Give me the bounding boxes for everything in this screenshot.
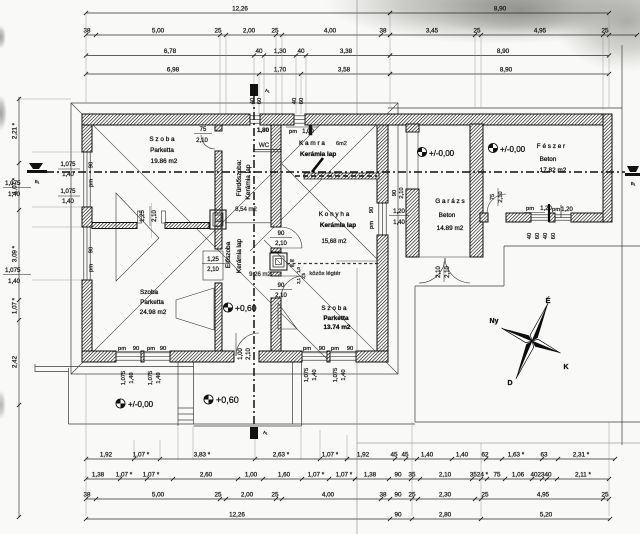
roof hip line 3 — [250, 103, 398, 251]
svg-text:1,07 *: 1,07 * — [12, 297, 19, 314]
wall stub WC — [253, 149, 281, 151]
svg-text:1,80: 1,80 — [257, 127, 270, 134]
section line A-A vertical — [253, 96, 255, 433]
roof hip line 4 — [264, 240, 398, 374]
svg-text:4,00: 4,00 — [324, 28, 337, 35]
svg-text:1,38: 1,38 — [364, 472, 377, 479]
svg-text:1,20: 1,20 — [540, 206, 552, 212]
svg-text:1,0: 1,0 — [296, 266, 301, 272]
svg-text:+0,60: +0,60 — [235, 303, 257, 313]
svg-text:WC: WC — [259, 142, 270, 149]
svg-text:90: 90 — [319, 346, 325, 352]
svg-text:15,68 m2: 15,68 m2 — [321, 239, 347, 245]
svg-text:60: 60 — [551, 233, 557, 239]
beam line chimney to W3 — [225, 222, 271, 224]
svg-text:14.89 m2: 14.89 m2 — [437, 225, 464, 232]
svg-text:2,00: 2,00 — [243, 28, 256, 35]
window top wall flue vent — [250, 116, 260, 123]
svg-text:4,95: 4,95 — [534, 28, 547, 35]
svg-text:1,075: 1,075 — [5, 180, 21, 187]
svg-text:F é s z e r: F é s z e r — [537, 143, 566, 150]
svg-text:+/-0,00: +/-0,00 — [429, 149, 455, 158]
svg-text:75: 75 — [490, 194, 496, 200]
svg-text:40: 40 — [292, 98, 298, 104]
scanner marks left edge — [0, 25, 6, 49]
svg-text:4,00: 4,00 — [322, 492, 335, 499]
svg-text:Beton: Beton — [439, 212, 456, 219]
svg-text:A₁: A₁ — [265, 88, 270, 93]
svg-text:2,00: 2,00 — [241, 492, 254, 499]
left extension lines — [32, 151, 82, 153]
svg-text:38: 38 — [83, 28, 91, 35]
level marker 0 garage court — [417, 147, 426, 156]
svg-text:1,00: 1,00 — [245, 472, 258, 479]
svg-text:1,40: 1,40 — [393, 220, 405, 226]
svg-text:2,10: 2,10 — [246, 348, 252, 360]
svg-text:402340: 402340 — [530, 472, 552, 479]
svg-text:Fürdőszoba:: Fürdőszoba: — [236, 160, 243, 197]
wall interior W1 bathroom-szoba — [215, 125, 222, 131]
svg-text:90: 90 — [369, 207, 375, 213]
top dimension row 2 left — [86, 34, 390, 36]
wall feszer bottom — [480, 213, 488, 222]
svg-text:6,78: 6,78 — [164, 48, 177, 55]
svg-text:3,83 *: 3,83 * — [194, 452, 211, 459]
svg-text:90: 90 — [278, 283, 285, 289]
svg-text:1,40: 1,40 — [421, 452, 434, 459]
svg-text:90: 90 — [347, 346, 353, 352]
svg-text:B₁: B₁ — [35, 179, 40, 184]
svg-text:1,60: 1,60 — [278, 472, 291, 479]
svg-text:K o n y h a: K o n y h a — [319, 211, 350, 218]
svg-text:S z o b a: S z o b a — [149, 136, 175, 143]
svg-text:Beton: Beton — [540, 156, 557, 163]
svg-text:1,70: 1,70 — [274, 67, 287, 74]
svg-text:pm: pm — [289, 129, 297, 135]
wall interior W2 szoba-szoba — [92, 223, 137, 229]
window bottom wall 3 — [302, 353, 327, 360]
svg-text:pm: pm — [89, 264, 95, 272]
top dimension row 3 left — [86, 55, 390, 57]
svg-text:pm: pm — [89, 179, 95, 187]
svg-text:pm: pm — [303, 346, 311, 352]
svg-text:1,20: 1,20 — [561, 207, 573, 213]
window left wall upper — [84, 152, 90, 207]
level marker 0 feszer — [488, 143, 497, 152]
top dimension row 3 right — [390, 55, 609, 57]
chimney C1 — [210, 210, 226, 229]
top dimension row 2 right — [390, 34, 637, 36]
svg-text:2,10: 2,10 — [498, 191, 504, 202]
wall exterior right main house — [377, 125, 388, 203]
svg-text:+0,60: +0,60 — [216, 395, 239, 405]
triangle szoba 24.98 left — [116, 193, 159, 281]
svg-text:90: 90 — [392, 190, 398, 196]
svg-text:A₁: A₁ — [263, 430, 268, 435]
svg-text:90: 90 — [394, 492, 402, 499]
door W2 jambs — [138, 211, 142, 223]
svg-text:45: 45 — [390, 452, 398, 459]
svg-text:pm: pm — [147, 346, 155, 352]
svg-text:1,075: 1,075 — [5, 267, 21, 274]
svg-text:12,26: 12,26 — [232, 6, 248, 13]
svg-text:Parketta: Parketta — [150, 147, 174, 154]
window top wall kamra — [294, 116, 305, 123]
svg-text:90: 90 — [394, 512, 402, 519]
wall exterior bottom — [82, 351, 116, 362]
wall garage right — [470, 124, 483, 257]
svg-text:40: 40 — [527, 233, 533, 239]
svg-text:8,90: 8,90 — [500, 67, 513, 74]
window feszer 2 — [555, 215, 571, 220]
roof valley kitchen — [282, 164, 379, 261]
svg-text:1,07 *: 1,07 * — [133, 452, 150, 459]
svg-text:1,30: 1,30 — [274, 48, 287, 55]
svg-text:Ny: Ny — [490, 318, 499, 325]
window feszer 1 — [531, 215, 549, 220]
svg-text:K: K — [563, 364, 568, 371]
svg-text:1,40: 1,40 — [8, 191, 21, 198]
window right wall kitchen — [379, 203, 386, 235]
svg-text:25: 25 — [271, 492, 279, 499]
level marker 060 porch — [223, 303, 232, 312]
svg-text:Szoba: Szoba — [140, 289, 159, 296]
svg-text:90: 90 — [89, 247, 95, 253]
svg-text:2,30: 2,30 — [439, 492, 452, 499]
svg-text:40: 40 — [297, 48, 305, 55]
bottom dimension row 3 — [86, 498, 609, 500]
window bottom wall 4 — [330, 353, 356, 360]
svg-text:2,10: 2,10 — [399, 187, 405, 198]
svg-text:Parketta: Parketta — [140, 299, 164, 306]
kamra flue mark — [309, 125, 312, 135]
door W1 eloszoba jamb — [203, 251, 223, 280]
svg-text:2,5: 2,5 — [301, 272, 306, 278]
wall exterior top — [82, 114, 250, 125]
section marker B left — [29, 163, 43, 169]
svg-text:1,63 *: 1,63 * — [508, 452, 525, 459]
svg-text:3524 *: 3524 * — [470, 472, 489, 479]
svg-text:62: 62 — [481, 452, 489, 459]
svg-text:2,21 *: 2,21 * — [12, 122, 19, 139]
svg-text:6,98: 6,98 — [167, 67, 180, 74]
wall garage left — [406, 124, 419, 132]
svg-text:3,58: 3,58 — [338, 67, 351, 74]
svg-text:2,10: 2,10 — [445, 266, 451, 278]
entry porch outline — [177, 362, 179, 426]
svg-text:1,00: 1,00 — [302, 129, 314, 135]
window left wall lower — [84, 227, 90, 280]
svg-text:25: 25 — [473, 28, 481, 35]
top dimension row 4 right — [390, 73, 609, 75]
svg-text:1,20: 1,20 — [393, 209, 405, 215]
svg-text:1,40: 1,40 — [456, 452, 469, 459]
svg-text:1,40: 1,40 — [8, 278, 21, 285]
svg-text:2,10: 2,10 — [275, 241, 287, 247]
svg-text:8,90: 8,90 — [494, 6, 507, 13]
quad szoba 24.98 — [176, 288, 214, 330]
svg-text:2,31 *: 2,31 * — [573, 452, 590, 459]
wall interior W3 hall-kitchen — [271, 125, 281, 227]
svg-text:5,00: 5,00 — [152, 492, 165, 499]
svg-text:45: 45 — [401, 452, 409, 459]
bottom dimension row 2 right — [355, 478, 609, 480]
svg-text:2,11 *: 2,11 * — [575, 472, 592, 479]
svg-text:90: 90 — [278, 231, 285, 237]
svg-text:25: 25 — [601, 28, 609, 35]
section line B-B horizontal — [30, 171, 625, 173]
svg-text:2,10: 2,10 — [207, 267, 219, 273]
top dimension row 4 left — [86, 73, 390, 75]
svg-text:pm: pm — [552, 207, 560, 213]
svg-text:Előszoba: Előszoba — [225, 241, 232, 268]
svg-text:1,40: 1,40 — [156, 372, 162, 383]
svg-text:K a m r a: K a m r a — [299, 140, 325, 147]
svg-text:1,075: 1,075 — [333, 368, 339, 383]
svg-text:8,90: 8,90 — [497, 48, 510, 55]
svg-text:1,07 *: 1,07 * — [143, 472, 160, 479]
svg-text:1,075: 1,075 — [60, 189, 76, 195]
door kitchen upper — [281, 227, 302, 248]
svg-text:2,42: 2,42 — [12, 355, 19, 368]
bottom dimension row 1 right — [347, 458, 615, 460]
top dimension row 1 left (12,26) — [86, 12, 390, 14]
section marker A bottom — [250, 427, 258, 439]
svg-text:Kerámia lap: Kerámia lap — [300, 151, 336, 158]
svg-text:90: 90 — [89, 162, 95, 168]
paving outline right — [504, 245, 640, 247]
svg-text:12,26: 12,26 — [229, 512, 245, 519]
svg-text:1,075: 1,075 — [148, 371, 154, 386]
kitchen dashed band — [287, 263, 378, 265]
svg-text:63: 63 — [540, 452, 548, 459]
svg-text:Kerámia lap: Kerámia lap — [245, 164, 252, 200]
bottom dimension row 2 left — [86, 478, 355, 480]
left vertical dimension chain — [18, 97, 20, 517]
section marker B right — [627, 166, 639, 172]
svg-text:90: 90 — [394, 472, 402, 479]
svg-text:1,40: 1,40 — [129, 372, 135, 383]
window bottom wall 1 — [116, 353, 141, 360]
svg-text:pm: pm — [369, 221, 375, 229]
door bathroom — [201, 135, 215, 149]
page fold line horizontal — [357, 442, 640, 444]
svg-text:pm: pm — [118, 346, 126, 352]
roof hip line 1 — [71, 103, 330, 362]
svg-text:35: 35 — [408, 472, 416, 479]
kamra bold diagonal — [312, 158, 323, 172]
svg-text:2,10: 2,10 — [196, 138, 208, 144]
svg-text:24.98 m2: 24.98 m2 — [140, 309, 167, 316]
svg-text:1,00: 1,00 — [238, 348, 244, 360]
svg-text:1,92: 1,92 — [357, 452, 370, 459]
svg-text:75: 75 — [200, 127, 207, 133]
svg-text:1,40: 1,40 — [62, 172, 74, 178]
svg-text:2,60: 2,60 — [200, 472, 213, 479]
svg-text:2,80: 2,80 — [439, 512, 452, 519]
compass rose — [486, 290, 577, 390]
terrace outline left — [35, 366, 194, 368]
svg-text:1,38: 1,38 — [92, 472, 105, 479]
svg-text:pm: pm — [526, 206, 534, 212]
svg-text:3,45: 3,45 — [426, 28, 439, 35]
svg-text:17.82 m2: 17.82 m2 — [540, 167, 567, 174]
svg-text:3,38: 3,38 — [340, 48, 353, 55]
wall exterior left — [82, 125, 92, 152]
top dimension row 1 right (8,90) — [390, 12, 609, 14]
chimney C2 — [270, 253, 287, 270]
svg-text:1,06: 1,06 — [512, 472, 525, 479]
svg-text:13.74 m2: 13.74 m2 — [323, 324, 350, 331]
svg-text:9,26 m2: 9,26 m2 — [249, 272, 271, 278]
svg-text:G a r á z s: G a r á z s — [435, 198, 464, 205]
svg-text:2,10: 2,10 — [275, 293, 287, 299]
level marker 060 lower — [204, 395, 213, 404]
svg-text:2,10: 2,10 — [439, 472, 452, 479]
svg-text:75: 75 — [493, 472, 501, 479]
svg-text:3,09 *: 3,09 * — [12, 245, 19, 262]
svg-text:2,10: 2,10 — [152, 210, 158, 222]
svg-text:1,40: 1,40 — [312, 369, 318, 380]
svg-text:25: 25 — [271, 28, 279, 35]
door feszer — [487, 194, 506, 213]
svg-text:Parketta: Parketta — [323, 315, 349, 322]
svg-text:1,075: 1,075 — [60, 162, 76, 168]
svg-text:40: 40 — [255, 48, 263, 55]
svg-text:1,07 *: 1,07 * — [336, 472, 353, 479]
bottom dimension row 1 left — [86, 458, 347, 460]
svg-text:40: 40 — [250, 98, 256, 104]
bottom dimension row 4 — [86, 518, 610, 520]
svg-text:90: 90 — [160, 346, 166, 352]
svg-text:1,07 *: 1,07 * — [116, 472, 133, 479]
roof overhang outline right building — [388, 107, 622, 109]
svg-text:1,40: 1,40 — [341, 369, 347, 380]
svg-text:1,25: 1,25 — [207, 257, 219, 263]
svg-text:25: 25 — [214, 28, 222, 35]
section marker A top — [250, 84, 258, 96]
svg-text:38: 38 — [379, 28, 387, 35]
svg-text:+/-0,00: +/-0,00 — [128, 400, 154, 409]
svg-text:Kerámia lap: Kerámia lap — [320, 222, 356, 229]
svg-text:8,54 m2: 8,54 m2 — [235, 207, 257, 213]
svg-text:19.86 m2: 19.86 m2 — [151, 158, 178, 165]
svg-text:1,92: 1,92 — [100, 452, 113, 459]
svg-text:1,075: 1,075 — [121, 371, 127, 386]
page fold line vertical — [356, 0, 358, 114]
svg-text:1,075: 1,075 — [304, 368, 310, 383]
svg-text:4,95: 4,95 — [537, 492, 550, 499]
svg-text:2,63 *: 2,63 * — [273, 452, 290, 459]
svg-text:60: 60 — [535, 233, 541, 239]
svg-text:1,07 *: 1,07 * — [322, 452, 339, 459]
svg-text:25: 25 — [481, 492, 489, 499]
dimension extension lines — [85, 14, 87, 103]
svg-text:25: 25 — [214, 492, 222, 499]
svg-text:25: 25 — [408, 492, 416, 499]
svg-text:6m2: 6m2 — [336, 141, 347, 147]
svg-text:38: 38 — [379, 492, 387, 499]
svg-text:+/-0,00: +/-0,00 — [500, 145, 526, 154]
garage door arcs — [419, 258, 445, 283]
level marker 0 left — [116, 399, 125, 408]
fan szoba 13.74 — [278, 303, 297, 329]
roof overhang outline main house — [71, 103, 398, 374]
svg-text:S z o b a: S z o b a — [321, 305, 347, 312]
svg-text:1,40: 1,40 — [62, 199, 74, 205]
svg-text:5,20: 5,20 — [540, 512, 553, 519]
scanner smudge top right — [325, 0, 640, 44]
kamra attic stair strip — [304, 173, 379, 179]
svg-text:D: D — [507, 380, 512, 387]
svg-text:Kerámia lap: Kerámia lap — [236, 239, 243, 274]
svg-text:25: 25 — [601, 492, 609, 499]
roof hip line 2 — [71, 114, 331, 374]
svg-text:90: 90 — [133, 346, 139, 352]
svg-text:40: 40 — [543, 233, 549, 239]
door kitchen lower — [281, 276, 303, 298]
window bottom wall 2 — [144, 353, 170, 360]
svg-text:60: 60 — [257, 98, 263, 104]
wall feszer right — [603, 114, 612, 222]
svg-text:É: É — [545, 296, 550, 305]
svg-text:5,00: 5,00 — [152, 28, 165, 35]
svg-text:közös légtér: közös légtér — [309, 271, 340, 277]
svg-text:1,07 *: 1,07 * — [308, 472, 325, 479]
svg-text:1,25: 1,25 — [140, 210, 146, 222]
svg-text:B₁: B₁ — [631, 181, 636, 186]
svg-text:60: 60 — [299, 98, 305, 104]
svg-text:38: 38 — [83, 492, 91, 499]
door front entry — [236, 333, 259, 356]
svg-text:pm: pm — [331, 346, 339, 352]
svg-text:2,10: 2,10 — [436, 266, 442, 278]
